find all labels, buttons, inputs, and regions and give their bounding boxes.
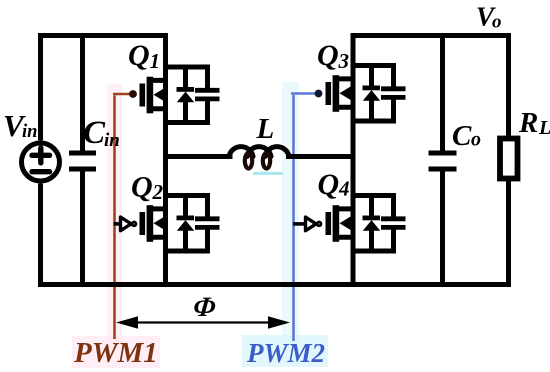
svg-text:2: 2 (152, 180, 164, 204)
svg-text:Q: Q (317, 39, 339, 72)
svg-text:R: R (518, 107, 538, 139)
svg-text:Q: Q (128, 39, 150, 72)
svg-text:1: 1 (150, 49, 161, 73)
svg-text:o: o (492, 12, 502, 33)
svg-text:Φ: Φ (192, 292, 217, 323)
svg-text:L: L (256, 113, 275, 145)
svg-text:L: L (538, 117, 550, 139)
svg-text:Q: Q (318, 168, 340, 201)
svg-text:Q: Q (131, 171, 153, 204)
svg-text:PWM2: PWM2 (246, 338, 325, 368)
svg-text:o: o (471, 129, 481, 151)
svg-text:in: in (22, 122, 37, 142)
svg-text:3: 3 (338, 49, 350, 73)
svg-text:C: C (452, 120, 472, 152)
svg-text:PWM1: PWM1 (73, 337, 158, 369)
svg-text:C: C (83, 115, 106, 151)
svg-text:4: 4 (338, 177, 350, 201)
svg-text:in: in (104, 130, 120, 151)
